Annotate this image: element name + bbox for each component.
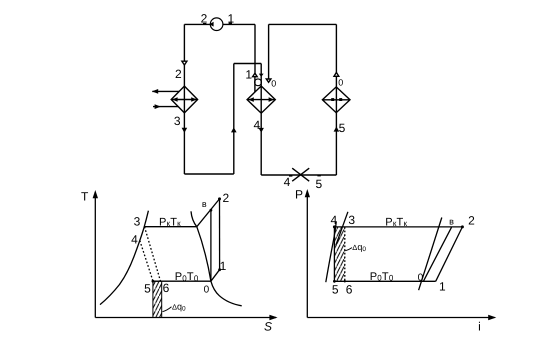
T axis (94, 192, 96, 318)
flow arrow down at cascade HX outlet (259, 128, 264, 133)
svg-text:4: 4 (253, 118, 260, 132)
flow triangle hollow down on left edge (182, 61, 187, 65)
svg-text:PкTк: PкTк (385, 216, 407, 228)
hatched q0 loss strip TS (153, 281, 162, 317)
isentrope through 0 (419, 218, 442, 291)
condenser internal arrow left (172, 97, 178, 102)
condenser internal line (171, 99, 197, 101)
tick near valve label 4 (289, 175, 292, 177)
compression line 0 to v (423, 227, 451, 281)
evaporator internal square left (331, 98, 334, 101)
svg-text:0: 0 (418, 273, 424, 284)
svg-text:0: 0 (204, 284, 210, 295)
hatched q0 loss strip Pi (334, 227, 344, 281)
tick under compressor label 1 (229, 23, 232, 25)
svg-text:0: 0 (338, 77, 343, 87)
svg-text:PкTк: PкTк (159, 216, 181, 228)
tick under compressor label 2 (203, 23, 206, 25)
cooling water in arrowhead (155, 104, 161, 109)
flow arrow up on riser (231, 127, 237, 132)
T axis arrowhead (93, 190, 98, 198)
svg-text:4: 4 (331, 213, 338, 227)
svg-text:2: 2 (468, 214, 475, 228)
dot at point 5 TS (152, 280, 155, 283)
svg-text:Δq0: Δq0 (352, 242, 366, 253)
P0T0 isobar line (153, 280, 211, 282)
svg-text:5: 5 (316, 177, 323, 191)
wire through evaporator down (335, 76, 337, 175)
svg-text:3: 3 (134, 214, 141, 228)
svg-text:6: 6 (163, 281, 170, 295)
PkTk isobar line (145, 226, 197, 228)
svg-text:в: в (202, 199, 207, 209)
cascade HX internal arrow right (269, 97, 275, 102)
dot at point v TS (210, 209, 213, 212)
svg-text:1: 1 (228, 11, 235, 25)
leader line to dq0 TS (163, 307, 172, 312)
cooling water in line (153, 106, 178, 108)
i axis (307, 317, 494, 319)
cooling water out arrowhead (152, 89, 158, 94)
leader line to dq0 Pi (345, 248, 352, 251)
P0T0 isobar line Pi (334, 280, 435, 282)
wire loop1 bottom edge (184, 173, 233, 175)
hollow up triangle above evaporator (334, 72, 339, 76)
svg-text:5: 5 (332, 283, 339, 297)
svg-text:0: 0 (271, 79, 276, 89)
saturated vapor slant through 3 (336, 212, 348, 246)
dot at point 2 TS (218, 197, 221, 200)
evaporator diamond (322, 87, 350, 113)
wire loop1 left edge (183, 24, 185, 174)
wire loop2 top edge (269, 23, 337, 25)
compressor circle (210, 18, 223, 31)
small float circle on cascade HX (255, 79, 262, 86)
cascade HX internal arrow left (248, 97, 254, 102)
wire loop1 right edge (suction) (254, 24, 256, 73)
svg-text:2: 2 (201, 12, 208, 26)
arrow into label 2 (discharge, pointing left) (209, 22, 213, 27)
svg-text:2: 2 (175, 67, 182, 81)
svg-text:P: P (295, 187, 303, 201)
throttling line 4 to 5 (333, 227, 335, 281)
dome right branch middle (197, 227, 211, 282)
condenser heat exchanger diamond (171, 86, 197, 113)
wire loop2 right edge (335, 24, 337, 72)
hollow up triangle at cascade HX vapor outlet (253, 73, 258, 77)
i axis arrowhead (488, 315, 496, 320)
wire loop2 left edge (268, 24, 270, 78)
dot at point 1 TS (218, 268, 221, 271)
dome right branch upper (191, 211, 197, 226)
wire loop2 bottom edge (261, 174, 336, 176)
svg-text:1: 1 (220, 259, 227, 273)
flow arrow down below condenser (182, 128, 188, 133)
dome right branch lower (211, 281, 242, 306)
wire down into cascade HX (260, 64, 262, 176)
superheat isobar to 2 (197, 199, 220, 227)
hollow down triangle at cascade HX vapor inlet (266, 79, 271, 82)
wire jog to cascade HX (234, 63, 261, 65)
svg-text:3: 3 (174, 114, 181, 128)
dashed line 3 to 6 (344, 227, 346, 281)
svg-text:3: 3 (348, 213, 355, 227)
evaporator internal line (322, 99, 350, 101)
S axis arrowhead (269, 315, 277, 320)
svg-text:в: в (449, 217, 454, 227)
dashed expansion 3 to 6 (145, 227, 161, 282)
dashed expansion 4 to 5 (140, 241, 153, 282)
svg-text:6: 6 (346, 283, 353, 297)
flow arrow up at evaporator inlet (334, 126, 340, 131)
cascade HX internal line (247, 99, 275, 101)
segment 0 to 1 (211, 270, 220, 282)
expansion valve X (292, 168, 309, 181)
dot at point 6 Pi (344, 280, 346, 282)
cascade heat exchanger diamond (247, 86, 275, 113)
svg-text:P0T0: P0T0 (370, 271, 394, 283)
isentrope 0 to v (210, 210, 212, 281)
flow arrow down into cascade HX (259, 74, 264, 77)
svg-text:2: 2 (222, 191, 229, 205)
P axis (306, 194, 308, 318)
svg-text:4: 4 (284, 175, 291, 189)
PkTk isobar line Pi (334, 226, 462, 228)
isentrope 1 to 2 (219, 199, 221, 270)
wire from triangle to HX edge (254, 77, 256, 93)
S axis (95, 317, 276, 319)
svg-text:1: 1 (245, 68, 252, 82)
condenser internal arrow right (191, 97, 197, 102)
compression line 1 to 2 (436, 227, 463, 281)
svg-text:1: 1 (439, 279, 446, 293)
cooling water out line (152, 90, 179, 92)
wire loop1 top edge (184, 23, 210, 25)
svg-text:Δq0: Δq0 (172, 302, 186, 313)
svg-text:P0T0: P0T0 (175, 271, 199, 283)
dome left branch (100, 211, 148, 305)
evaporator internal square right (339, 98, 342, 101)
wire loop1 riser (233, 64, 235, 175)
svg-text:i: i (478, 320, 481, 334)
svg-text:4: 4 (131, 233, 138, 247)
P axis arrowhead (305, 189, 310, 197)
dot at point 5 Pi (333, 280, 336, 283)
saturated liquid curve Pi (326, 222, 336, 282)
svg-text:5: 5 (339, 121, 346, 135)
dot at point 2 Pi (461, 225, 464, 228)
dot at point 4 Pi (333, 225, 336, 228)
svg-text:5: 5 (144, 282, 151, 296)
svg-text:T: T (81, 190, 89, 204)
svg-text:S: S (264, 320, 272, 334)
tick near valve label 5 (317, 175, 320, 177)
